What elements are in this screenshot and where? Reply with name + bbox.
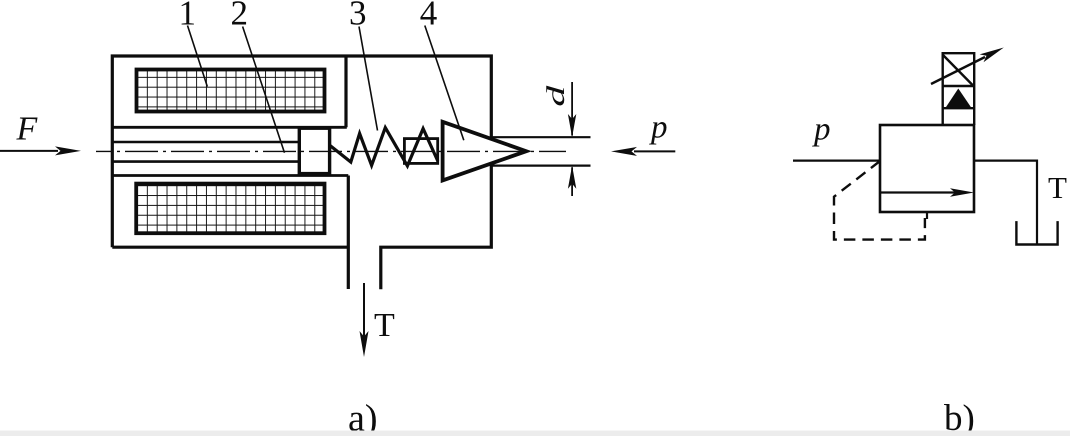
internal flow arrow bbox=[880, 191, 960, 193]
pressure arrow p (part a) bbox=[634, 150, 675, 152]
push-pin block bbox=[299, 128, 329, 173]
centerline (dash-dot axis) bbox=[96, 150, 566, 152]
supply line p (part b) bbox=[793, 160, 880, 162]
svg-text:F: F bbox=[16, 111, 39, 148]
leader line 2 bbox=[243, 27, 285, 153]
leader line 1 bbox=[188, 26, 208, 87]
svg-text:2: 2 bbox=[230, 0, 248, 32]
svg-text:3: 3 bbox=[349, 0, 367, 32]
force arrow F bbox=[0, 150, 58, 152]
spring 3 bbox=[330, 128, 438, 166]
leader line 4 bbox=[425, 26, 464, 141]
armature channel top line bbox=[112, 126, 346, 129]
svg-text:a): a) bbox=[348, 398, 378, 436]
seat bore lines (right of wall) bbox=[491, 137, 590, 165]
svg-text:4: 4 bbox=[420, 0, 438, 32]
tank symbol bbox=[1016, 221, 1057, 244]
svg-text:T: T bbox=[1048, 170, 1067, 205]
scan edge shading at bottom bbox=[0, 431, 1070, 436]
adjustable spring box bbox=[943, 53, 975, 125]
pilot control line (dashed) bbox=[834, 161, 925, 240]
svg-text:b): b) bbox=[944, 398, 975, 436]
svg-text:p: p bbox=[812, 112, 831, 148]
svg-text:1: 1 bbox=[179, 0, 197, 32]
spring box X diagonal bbox=[943, 55, 975, 87]
svg-text:p: p bbox=[649, 110, 668, 146]
pilot line stub bbox=[926, 212, 928, 219]
tank port arrow T (part a) bbox=[363, 283, 365, 351]
poppet cone 4 bbox=[443, 122, 527, 181]
spring seat square bbox=[404, 139, 437, 164]
armature 2 (plunger body lines) bbox=[112, 142, 299, 162]
svg-text:d: d bbox=[541, 85, 570, 107]
housing outer shell bbox=[112, 56, 491, 289]
spring box solid triangle bbox=[945, 89, 972, 109]
svg-text:T: T bbox=[374, 307, 395, 344]
valve square (symbol body) bbox=[880, 125, 974, 212]
adjustment arrow bbox=[931, 57, 985, 84]
armature channel bottom line bbox=[112, 174, 348, 177]
housing internal step wall (top) bbox=[344, 56, 347, 127]
outlet line to tank bbox=[974, 161, 1037, 245]
coil winding 1 (top, crosshatched) bbox=[137, 70, 325, 112]
dimension d lower segment bbox=[571, 167, 573, 196]
leader line 3 bbox=[359, 27, 378, 131]
coil winding (bottom, crosshatched) bbox=[136, 184, 324, 234]
dimension d upper segment bbox=[571, 82, 573, 136]
